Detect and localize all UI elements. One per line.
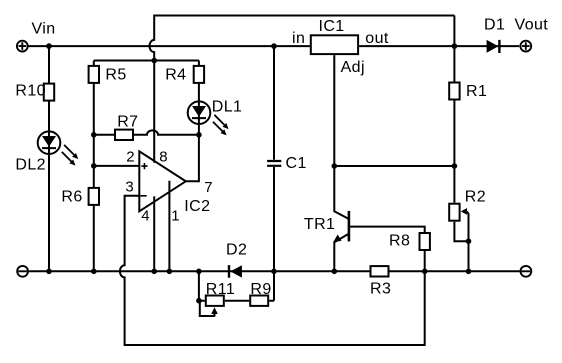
- svg-text:R11: R11: [206, 281, 235, 298]
- svg-text:1: 1: [171, 208, 179, 225]
- svg-text:R1: R1: [466, 83, 487, 100]
- svg-text:C1: C1: [286, 155, 307, 172]
- svg-text:7: 7: [204, 179, 212, 196]
- svg-text:R6: R6: [61, 188, 82, 205]
- svg-text:Adj: Adj: [341, 59, 365, 76]
- svg-text:IC2: IC2: [184, 198, 210, 215]
- svg-text:D1: D1: [484, 17, 505, 34]
- svg-text:R9: R9: [250, 281, 271, 298]
- svg-text:R5: R5: [105, 66, 126, 83]
- svg-text:R7: R7: [117, 114, 138, 131]
- svg-text:in: in: [292, 30, 305, 47]
- svg-text:4: 4: [141, 207, 149, 224]
- svg-text:IC1: IC1: [319, 18, 345, 35]
- svg-text:R2: R2: [465, 188, 486, 205]
- svg-text:D2: D2: [226, 242, 247, 259]
- svg-text:2: 2: [126, 149, 134, 166]
- svg-text:DL2: DL2: [15, 156, 46, 173]
- svg-text:DL1: DL1: [212, 99, 243, 116]
- svg-text:R4: R4: [165, 66, 186, 83]
- svg-text:Vout: Vout: [515, 17, 549, 34]
- svg-text:R8: R8: [389, 233, 410, 250]
- svg-text:3: 3: [125, 178, 133, 195]
- svg-text:Vin: Vin: [32, 21, 56, 38]
- svg-text:TR1: TR1: [304, 216, 335, 233]
- svg-text:R10: R10: [15, 83, 46, 100]
- svg-text:R3: R3: [370, 281, 391, 298]
- svg-text:out: out: [365, 30, 389, 47]
- svg-text:8: 8: [159, 149, 167, 166]
